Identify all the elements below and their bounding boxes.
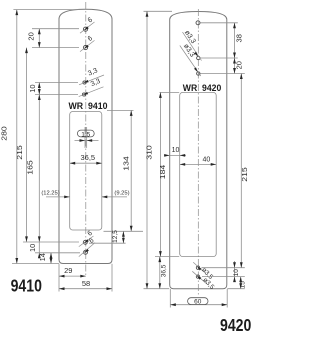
- ext line hole row b1 right: [89, 242, 126, 244]
- svg-text:215: 215: [240, 167, 249, 182]
- svg-text:20: 20: [27, 32, 36, 40]
- ext vertical 58 left: [58, 264, 60, 292]
- svg-text:310: 310: [145, 145, 154, 160]
- svg-text:10: 10: [28, 244, 37, 252]
- leader + label 6 for bottom1: [79, 236, 94, 247]
- svg-text:165: 165: [26, 160, 35, 175]
- svg-text:9420: 9420: [220, 315, 252, 335]
- centerline 9420 (vertical dash-dot): [197, 9, 199, 296]
- centerline 9410 (vertical dash-dot): [85, 2, 87, 277]
- svg-text:40: 40: [203, 157, 211, 164]
- dim 215: [26, 48, 28, 242]
- svg-text:134: 134: [121, 156, 130, 171]
- leader + label 6 for top1: [80, 22, 95, 33]
- ext line inner-rect top left 9420: [160, 91, 180, 93]
- svg-text:WR 9420: WR 9420: [183, 83, 222, 93]
- leader + label 6 for bottom2: [79, 243, 95, 257]
- svg-text:184: 184: [158, 165, 167, 180]
- hole ⌀6 bottom1: [83, 240, 87, 244]
- dim 20 9420: [234, 58, 236, 74]
- ext line hole row t1: [32, 28, 79, 30]
- ext line hole row t2: [32, 47, 79, 49]
- svg-text:10: 10: [28, 84, 37, 92]
- leader + label ø3,3 for A: [183, 32, 202, 61]
- svg-text:(9.25): (9.25): [114, 190, 129, 196]
- dim 36,5 bottom 9420: [159, 257, 161, 289]
- ext line hole row m1: [35, 82, 78, 84]
- ext vertical 58 right: [111, 264, 113, 292]
- hole ⌀6 bottom2: [84, 250, 88, 254]
- svg-text:WR 9410: WR 9410: [69, 101, 108, 111]
- dim 10 between mid holes: [38, 83, 40, 95]
- ext line hole row A 9420: [201, 57, 238, 59]
- hole ⌀3.5 B' 9420 bottom: [196, 275, 199, 278]
- ext vertical 60 left: [169, 289, 171, 308]
- svg-text:60: 60: [194, 299, 202, 306]
- svg-text:20: 20: [234, 61, 243, 69]
- svg-text:12,5: 12,5: [112, 230, 119, 243]
- ext line plate bottom left: [12, 263, 59, 265]
- ext line inner-rect top right: [107, 109, 134, 111]
- dim 184 inner rect 9420: [159, 92, 161, 256]
- svg-text:36,5: 36,5: [160, 264, 167, 277]
- ext line plate apex 9420: [144, 10, 173, 12]
- inner recess rectangle 9410: [70, 112, 102, 231]
- svg-text:280: 280: [0, 126, 9, 141]
- dim 10 bottom 9420: [234, 261, 236, 282]
- svg-text:9410: 9410: [11, 275, 43, 295]
- hole ⌀3.3 A 9420: [197, 56, 200, 59]
- dim 15 bottom 9420: [240, 277, 242, 289]
- dim (12.25) leader: [46, 196, 70, 198]
- svg-text:10: 10: [233, 269, 240, 277]
- svg-text:36,5: 36,5: [80, 153, 95, 162]
- oval balloon label 1,5: [77, 130, 94, 137]
- hole ⌀6 top2: [83, 46, 87, 50]
- dim 12,5: [122, 231, 124, 243]
- dim 60 with oval: [170, 304, 227, 306]
- hole ⌀6 top1: [83, 27, 87, 31]
- ext line hole row B' 9420: [202, 276, 245, 278]
- svg-text:215: 215: [15, 145, 24, 160]
- slot width dim line with arrows: [75, 140, 99, 142]
- dim 20 between top holes: [38, 29, 40, 48]
- dim 310 overall height 9420: [146, 11, 148, 288]
- hole ⌀3.3 mid2: [82, 93, 85, 96]
- ext line plate bottom left 9420: [144, 288, 170, 290]
- ext line hole row B 9420: [201, 73, 245, 75]
- dim 280 overall height: [16, 10, 18, 264]
- ext line hole row m2: [35, 94, 78, 96]
- dim 38 9420: [234, 23, 236, 58]
- dim 10 between bottom holes: [38, 242, 40, 259]
- svg-text:14: 14: [38, 253, 47, 261]
- ext line inner-rect bottom left 9420: [155, 256, 179, 258]
- dim 215 9420: [240, 74, 242, 268]
- hole ⌀3.3 mid1: [83, 81, 86, 84]
- svg-text:38: 38: [234, 34, 243, 42]
- ext line circle row 9420: [201, 22, 238, 24]
- leader + label ø3,3 for B: [180, 46, 201, 77]
- inner recess rectangle 9420: [180, 92, 217, 256]
- dim 14 bottom hole to edge: [50, 253, 52, 264]
- svg-text:10: 10: [172, 147, 180, 154]
- dim 40 recess width 9420: [180, 163, 217, 165]
- leader + label 3,3 for mid1: [79, 75, 104, 85]
- ext line hole row b2: [35, 252, 80, 254]
- ext line hole row A' 9420: [202, 267, 245, 269]
- pilot hole circle top 9420: [196, 21, 200, 25]
- dim (9.25) leader: [102, 196, 127, 198]
- ext line plate bottom right 9420: [227, 288, 245, 290]
- svg-text:58: 58: [82, 279, 90, 288]
- plate outline 9410 (domed top, rounded bottom): [59, 9, 112, 263]
- ext line plate apex 9410: [13, 9, 79, 11]
- svg-text:15: 15: [240, 281, 247, 289]
- central slot 1.5 wide 9410: [84, 127, 86, 148]
- plate outline 9420 (domed top, rounded bottom): [170, 12, 227, 289]
- hole ⌀3.3 B 9420: [197, 72, 200, 75]
- dim 134: [130, 110, 132, 231]
- svg-text:1,5: 1,5: [81, 131, 90, 138]
- leader + label ø3,5 for B': [192, 271, 206, 283]
- ext line hole row b1 left: [23, 241, 79, 243]
- leader + label ø3,5 for A': [193, 262, 205, 273]
- ext vertical 60 right: [226, 289, 228, 308]
- hole ⌀3.5 A' 9420 bottom: [196, 266, 199, 269]
- dim 165: [38, 95, 40, 242]
- leader + label 6 for top2: [80, 40, 95, 51]
- leader + label 3,3 for mid2: [79, 87, 104, 97]
- dim 58: [59, 288, 112, 290]
- svg-text:29: 29: [64, 266, 72, 275]
- svg-text:(12.25): (12.25): [41, 190, 59, 196]
- dim 29: [59, 275, 86, 277]
- dim 10 top 9420 (plate edge to recess): [164, 154, 186, 156]
- ext line inner-rect bottom right: [104, 230, 144, 232]
